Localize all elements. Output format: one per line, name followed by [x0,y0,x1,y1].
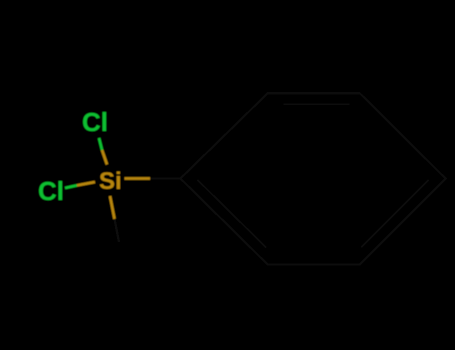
wire: aromatic inner bond B-C (top) [283,103,349,105]
wire: aromatic inner bond F-A (lower left) [197,180,266,248]
wire: bond Si-Cl(top) silicon half (ochre) [102,150,107,165]
wire: bond Si-C(ring) carbon half (dark gray) [150,177,180,179]
node: benzene ring outline [180,93,445,264]
wire: bond Si-CH3 carbon half (dark gray) [115,219,120,242]
wire: bond Si-Cl(top) chlorine half (green) [99,138,102,150]
svg-text:Si: Si [99,168,122,195]
wire: bond Si-C(ring) silicon half (ochre) [125,177,151,180]
wire: aromatic inner bond D-E (lower right) [361,180,428,248]
svg-text:Cl: Cl [38,176,64,206]
svg-text:Cl: Cl [82,107,108,137]
wire: bond Si-Cl(left) chlorine half (green) [65,185,77,188]
wire: bond Si-Cl(left) silicon half (ochre) [77,182,95,185]
wire: bond Si-CH3 silicon half (ochre) [110,196,115,219]
